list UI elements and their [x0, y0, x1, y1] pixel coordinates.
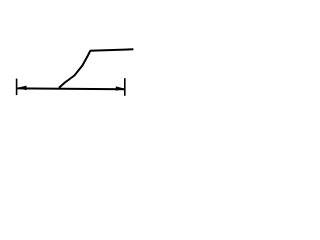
dimension line: [17, 87, 124, 90]
left arrowhead: [17, 86, 26, 91]
leader horizontal line: [90, 49, 134, 50]
right extension bar: [124, 78, 126, 96]
right arrowhead: [116, 86, 125, 90]
leader diagonal line: [59, 51, 90, 88]
left extension bar: [16, 79, 18, 96]
